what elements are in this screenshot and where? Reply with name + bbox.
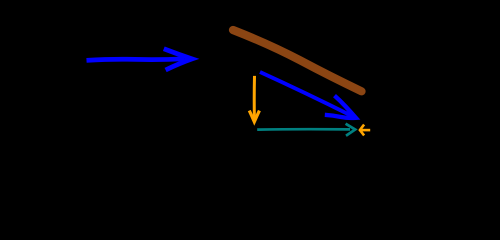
wire brown diagonal line L1 <box>233 30 362 91</box>
node blue horizontal arrow A1 head <box>164 49 192 70</box>
wire orange left arrow A5 shaft <box>360 129 370 132</box>
wire teal horizontal arrow A4 shaft <box>257 128 350 131</box>
node orange vertical arrow A3 head <box>249 111 259 122</box>
wire orange vertical arrow A3 shaft <box>253 76 256 119</box>
node blue diagonal arrow A2 head <box>325 96 356 118</box>
node orange left arrow A5 head <box>360 125 364 136</box>
wire blue diagonal arrow A2 shaft <box>260 72 352 116</box>
wire blue horizontal arrow A1 shaft <box>87 59 185 61</box>
node teal arrow A4 head <box>346 124 356 136</box>
